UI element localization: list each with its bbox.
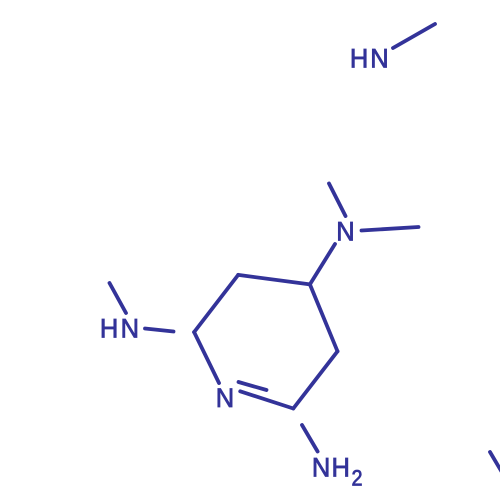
svg-text:2: 2: [352, 466, 363, 490]
bond fragment bottom-right corner: [490, 452, 500, 474]
bond ring C2-C3: [293, 351, 337, 408]
bond ring C6-N1: [194, 332, 219, 383]
bond methyl stub of left HN: [110, 283, 127, 313]
svg-text:N: N: [370, 43, 388, 74]
svg-text:H: H: [350, 43, 368, 74]
svg-text:H: H: [100, 313, 118, 344]
svg-text:H: H: [332, 452, 350, 483]
label NH2 (amino): [312, 452, 363, 491]
svg-text:N: N: [336, 216, 354, 247]
svg-text:N: N: [216, 382, 234, 413]
label HN (top methylamine): [350, 43, 389, 74]
bond ring C3-C4: [310, 284, 338, 351]
bond ring N1=C2 inner line: [239, 382, 267, 390]
bond ring C4-C5: [238, 275, 310, 285]
svg-text:N: N: [312, 452, 330, 483]
label N (dimethylamino N4): [336, 216, 354, 247]
bond N4 right methyl: [362, 227, 419, 231]
svg-text:N: N: [121, 313, 139, 344]
bond stub above amine N (N4): [329, 184, 346, 217]
bond ring N1=C2 main line: [240, 391, 293, 408]
bond ring C5-C6: [194, 275, 238, 332]
bond methyl-CH3 of top HN fragment: [393, 24, 435, 48]
label N (ring N1): [216, 382, 234, 413]
bond HN(left) to C6 stub: [145, 329, 174, 332]
bond C2 to NH2 stub: [302, 425, 318, 452]
bond N4 to ring C4: [310, 244, 335, 284]
label HN (left methylamino): [100, 313, 139, 344]
